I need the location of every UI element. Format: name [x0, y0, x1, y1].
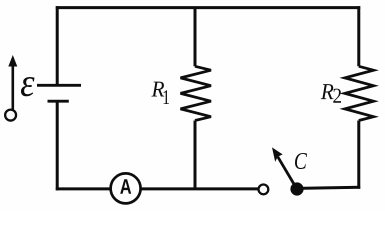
wire: right vertical (R2 to bottom corner) [357, 121, 360, 189]
ammeter A: letter [120, 179, 131, 194]
label C [295, 153, 307, 169]
label E (emf) [21, 77, 35, 96]
label R2 [321, 84, 334, 99]
battery E: long plate [37, 84, 81, 87]
resistor R1: zigzag [181, 66, 212, 120]
label R1 [151, 82, 164, 97]
resistor R1: bottom lead [194, 121, 197, 190]
wire: right vertical (top corner to R2) [357, 6, 360, 66]
switch C: lever arrowhead [272, 147, 283, 162]
wire: left vertical (battery to bottom corner) [56, 101, 59, 190]
switch C: pivot node (filled dot) [290, 182, 303, 195]
wire: bottom left segment (corner to ammeter) [56, 187, 111, 190]
wire: bottom right segment (switch dot to corner) [297, 187, 360, 188]
wire: top horizontal [56, 6, 360, 9]
battery E: short plate [48, 100, 69, 103]
switch C: lever shaft [278, 157, 296, 188]
resistor R1: top lead [194, 8, 197, 67]
EMF source arrow: shaft [12, 65, 15, 110]
wire: bottom segment (ammeter to switch open terminal) [141, 187, 259, 190]
wire: left vertical (top corner to battery) [56, 6, 59, 84]
resistor R2: zigzag [345, 66, 374, 120]
ammeter A: circle [111, 173, 141, 203]
switch C: open terminal circle [259, 185, 269, 195]
EMF source: terminal circle [5, 110, 16, 121]
EMF source arrow: head [8, 55, 17, 67]
